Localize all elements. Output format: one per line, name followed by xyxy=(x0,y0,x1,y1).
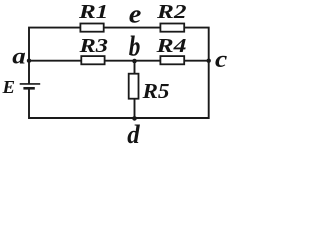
wire R5 stem b-d xyxy=(134,61,136,118)
svg-text:a: a xyxy=(12,44,25,69)
resistor R1 xyxy=(80,24,103,32)
resistor R5 xyxy=(129,74,139,99)
resistor R3 xyxy=(81,56,104,64)
node d junction dot xyxy=(132,116,137,121)
svg-text:d: d xyxy=(127,120,140,146)
svg-text:E: E xyxy=(1,77,15,97)
svg-text:R5: R5 xyxy=(141,79,169,103)
svg-text:e: e xyxy=(129,0,142,29)
node a junction dot xyxy=(27,59,31,63)
node b junction dot xyxy=(132,59,137,64)
svg-text:R4: R4 xyxy=(155,35,186,57)
svg-text:b: b xyxy=(129,32,141,63)
wire middle branch a-b-c xyxy=(29,60,209,62)
battery E short plate xyxy=(23,87,34,90)
svg-text:R2: R2 xyxy=(156,1,187,23)
svg-text:R3: R3 xyxy=(78,35,108,57)
resistor R2 xyxy=(160,24,184,32)
resistor R4 xyxy=(160,56,184,64)
wire outer loop (left rail, top branch, right rail, bottom wire) xyxy=(29,28,209,118)
battery E long plate xyxy=(20,83,41,85)
svg-text:c: c xyxy=(215,47,228,73)
svg-text:R1: R1 xyxy=(78,1,109,23)
node c junction dot xyxy=(207,59,211,63)
